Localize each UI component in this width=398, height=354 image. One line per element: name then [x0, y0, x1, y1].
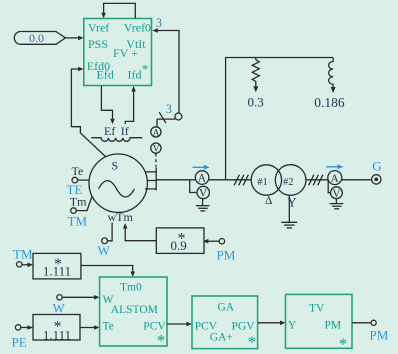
svg-text:#1: #1 [257, 177, 268, 188]
wire Tm0 to GA [167, 322, 192, 327]
dashed V1 to bar already; main line machine to transformer [156, 179, 251, 181]
blue current arrow left [193, 165, 210, 170]
transformer winding #1 [251, 165, 281, 207]
gain box 1.111 (PE) [33, 315, 80, 343]
svg-text:S: S [112, 159, 119, 173]
wire junction to load bus [226, 58, 334, 180]
svg-text:V: V [153, 145, 160, 155]
block TV [286, 294, 353, 353]
svg-text:Vref: Vref [88, 21, 109, 35]
svg-text:A: A [153, 128, 160, 138]
wire VtIt input from breaker [152, 28, 179, 113]
input oval 0.0 [14, 31, 65, 45]
wire GA to TV [258, 321, 286, 326]
svg-text:PGV: PGV [232, 320, 256, 332]
svg-text:If: If [121, 124, 129, 138]
svg-text:0.186: 0.186 [314, 95, 345, 110]
svg-text:*: * [157, 331, 166, 350]
terminal PM (0.9 input) [203, 239, 236, 263]
multiplier box 0.9 [156, 228, 204, 254]
meter chain ammeter A1 [151, 119, 161, 138]
wire Efd output to Ef [101, 86, 114, 124]
breaker 3 [157, 102, 182, 123]
svg-text:Te: Te [72, 164, 84, 178]
svg-text:PE: PE [12, 335, 27, 350]
meter chain voltmeter V1 [151, 143, 161, 167]
blue current arrow right [326, 164, 343, 169]
wire gain1 to Tm0 top [81, 266, 136, 278]
synchronous machine S [89, 154, 147, 212]
grid node G [372, 158, 382, 184]
svg-text:0.3: 0.3 [248, 95, 264, 110]
svg-text:1.111: 1.111 [43, 328, 71, 343]
field winding coil [91, 138, 142, 142]
governor block Tm0 ALSTOM [100, 277, 167, 350]
voltmeter V3 with stub [328, 180, 342, 200]
svg-text:Efd: Efd [97, 68, 114, 82]
svg-text:W: W [98, 243, 111, 258]
terminal Te [72, 164, 90, 183]
svg-text:PCV: PCV [195, 320, 218, 332]
svg-text:Ef: Ef [104, 124, 115, 138]
svg-text:Ifd: Ifd [128, 68, 142, 82]
svg-text:ALSTOM: ALSTOM [111, 304, 158, 316]
svg-text:TM: TM [68, 213, 88, 228]
svg-text:Tm0: Tm0 [120, 282, 142, 294]
svg-text:#2: #2 [283, 177, 294, 188]
wire TV to terminal PM [352, 320, 389, 342]
svg-text:A: A [198, 173, 207, 185]
svg-text:A: A [331, 173, 340, 185]
wire w to terminal W [98, 223, 113, 259]
ammeter A3 (grid side) [328, 171, 342, 185]
svg-text:FV +: FV + [113, 46, 138, 60]
ammeter A2 (machine side) [195, 171, 209, 185]
gain box 1.111 (TM) [33, 253, 81, 279]
block GA [192, 296, 258, 352]
svg-text:PSS: PSS [88, 37, 108, 51]
terminal W (governor input) [53, 295, 100, 316]
terminal TM (gain input) [13, 247, 33, 268]
terminal Tm [70, 194, 92, 213]
svg-text:Vref0: Vref0 [124, 21, 151, 35]
svg-text:Tm: Tm [70, 194, 87, 208]
svg-text:0.9: 0.9 [171, 238, 187, 253]
svg-text:wTm: wTm [108, 210, 134, 224]
svg-text:PM: PM [370, 328, 389, 343]
svg-text:GA+: GA+ [210, 332, 233, 344]
svg-text:GA: GA [218, 301, 235, 313]
svg-text:Y: Y [288, 320, 297, 332]
ground below V3 [330, 199, 344, 209]
svg-text:3: 3 [156, 16, 162, 30]
svg-text:V: V [332, 188, 341, 200]
wire oval to PSS input [66, 36, 84, 41]
svg-text:W: W [53, 300, 66, 315]
wire transformer to grid [306, 179, 372, 181]
svg-text:TM: TM [13, 247, 33, 262]
svg-text:PM: PM [217, 248, 236, 263]
ground of #2 neutral [281, 195, 297, 228]
3-phase slashes right [309, 175, 323, 186]
wire Efd0 input from machine [71, 67, 106, 157]
svg-text:G: G [372, 158, 381, 173]
svg-text:*: * [248, 333, 257, 352]
wire gain2 to Te input [80, 325, 100, 330]
load resistor 0.3 [248, 58, 264, 110]
svg-text:*: * [142, 63, 148, 77]
svg-text:TV: TV [309, 302, 325, 314]
wire If to Ifd input [125, 86, 136, 124]
wire feedback loop Vref0 to Vref [104, 3, 136, 18]
svg-text:*: * [339, 334, 348, 353]
svg-text:0.0: 0.0 [29, 31, 44, 45]
svg-text:PM: PM [325, 320, 342, 332]
ground below V2 [196, 199, 210, 211]
svg-text:V: V [199, 188, 208, 200]
AVR block U-AVR [84, 19, 152, 86]
load inductor 0.186 [314, 58, 345, 111]
3-phase slashes left [234, 175, 248, 186]
svg-text:1.111: 1.111 [43, 264, 71, 279]
transformer winding #2 [275, 165, 306, 210]
svg-text:Δ: Δ [265, 195, 272, 207]
terminal PE [12, 325, 34, 350]
wire Tm input from 0.9 box [123, 223, 157, 241]
machine 3-phase terminal bar [145, 167, 156, 190]
svg-text:Te: Te [103, 320, 114, 332]
voltmeter V2 with stub [190, 180, 210, 200]
svg-text:3: 3 [166, 102, 172, 116]
